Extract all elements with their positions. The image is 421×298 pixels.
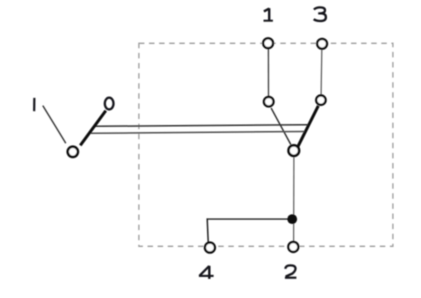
wire junction to left (207, 218, 292, 220)
mechanical link lower line (91, 132, 304, 134)
label terminal 1 (264, 8, 273, 21)
label position I (33, 98, 35, 111)
junction dot (287, 214, 297, 224)
terminal 4 circle (205, 243, 215, 253)
moving contact arm common pole to contact3 (closed position, thick) (297, 106, 318, 148)
terminal 2 circle (288, 242, 298, 252)
label position 0 (105, 98, 114, 110)
wire down to terminal4 (207, 218, 208, 242)
lever pivot circle (68, 147, 78, 157)
contact 3 circle (316, 95, 325, 104)
label terminal 3 (314, 7, 326, 21)
lever alternate position line toward I (thin) (43, 106, 66, 144)
wire terminal3 to contact3 (320, 50, 323, 95)
terminal 1 circle (263, 38, 273, 48)
wire contact1 to common pole (open position, thin) (271, 108, 291, 145)
wire common pole down to terminal2 (293, 157, 295, 241)
lever arm toward 0 (thick) (80, 111, 106, 146)
common pole circle (289, 145, 300, 156)
terminal 3 circle (317, 39, 327, 49)
label terminal 2 (285, 265, 297, 277)
label terminal 4 (199, 266, 214, 279)
mechanical link upper line (95, 125, 308, 127)
switch enclosure dashed outline (139, 43, 393, 246)
contact 1 circle (264, 97, 274, 107)
wire terminal1 to contact1 (267, 49, 269, 96)
